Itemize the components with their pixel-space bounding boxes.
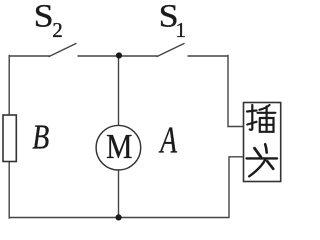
switch S1 blade [157,44,184,57]
svg-text:M: M [106,128,132,167]
svg-text:A: A [159,119,178,161]
wire left vertical upper [8,55,10,115]
node junction top [116,52,122,58]
wire top-right horizontal [188,55,228,57]
wire top-middle horizontal [78,55,157,57]
node junction bottom [116,214,122,220]
glyph 头 (plug char 2) [247,144,277,176]
svg-text:S: S [34,0,54,34]
wire motor branch upper [118,56,120,126]
wire bottom horizontal [9,217,229,219]
resistor B body [3,115,16,162]
wire right lower vertical [229,157,244,218]
wire top-left horizontal [9,55,50,57]
wire right upper vertical [228,55,244,126]
svg-text:B: B [32,118,49,157]
glyph 插 (plug char 1) [247,105,275,132]
svg-text:1: 1 [176,18,187,42]
svg-text:2: 2 [52,18,63,42]
wire motor branch lower [118,170,120,218]
wire left vertical lower [8,162,10,219]
plug box (插头) [244,103,281,182]
motor M circle U1 [96,125,141,170]
switch S2 blade [49,44,76,57]
